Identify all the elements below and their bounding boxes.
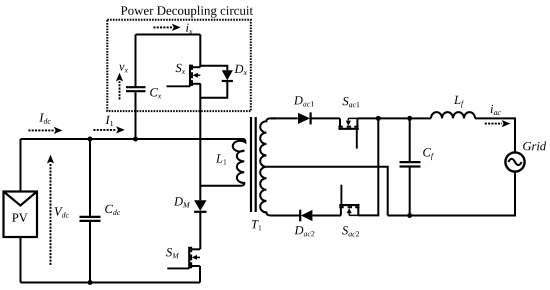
label Sac2 xyxy=(342,226,359,236)
node dot (branch join top) xyxy=(376,116,381,121)
label Sac1 xyxy=(343,97,360,107)
node dot (Cdc bottom rail) xyxy=(88,280,93,285)
label I1 xyxy=(106,116,114,126)
arrow iac xyxy=(485,120,511,127)
node dot (Cdc top rail) xyxy=(88,137,93,142)
wire Sac1 to output node xyxy=(357,117,431,119)
diode DM xyxy=(194,200,206,249)
wire Sx drain from top loop xyxy=(199,35,201,68)
dashed box Power Decoupling circuit xyxy=(107,20,251,111)
label iac xyxy=(491,105,501,115)
capacitor Cf xyxy=(400,118,421,215)
label Lf xyxy=(454,96,464,108)
label Vdc xyxy=(55,207,69,217)
diode Dac2 xyxy=(300,210,341,222)
transistor Sac2 (MOSFET horizontal) xyxy=(339,185,359,216)
capacitor Cdc xyxy=(80,139,101,283)
node dot (Cf top) xyxy=(407,116,412,121)
label T1 xyxy=(252,220,262,230)
wire decoupling top loop xyxy=(136,34,201,36)
label Cx xyxy=(150,88,161,98)
label SM xyxy=(166,248,179,258)
transistor Sx (MOSFET) xyxy=(167,65,201,87)
arrow Idc xyxy=(28,127,62,134)
wire grid return xyxy=(388,172,515,216)
label Cdc xyxy=(105,205,120,215)
label Dx xyxy=(234,65,247,75)
label Grid xyxy=(523,142,546,151)
transistor Sac1 (MOSFET horizontal) xyxy=(338,118,358,148)
transistor SM (MOSFET) xyxy=(167,247,200,269)
inductor Lf xyxy=(431,112,475,118)
wire top DC rail xyxy=(21,138,242,140)
node dot (Cx branch on rail) xyxy=(133,137,138,142)
label Sx xyxy=(176,64,186,74)
PV module xyxy=(4,192,38,238)
label vx xyxy=(119,65,128,73)
diode Dac1 xyxy=(298,112,340,124)
label ix xyxy=(186,24,192,34)
label DM xyxy=(174,197,190,207)
wire bottom DC rail xyxy=(21,282,200,284)
arrow ix xyxy=(153,24,180,31)
inductor L1 (primary winding) xyxy=(200,139,245,186)
arrow Vdc xyxy=(47,155,54,265)
winding secondary of T1 xyxy=(260,118,276,215)
title Power Decoupling circuit xyxy=(121,6,253,18)
AC source Grid xyxy=(505,152,524,171)
label Idc xyxy=(39,113,50,123)
label Cf xyxy=(423,148,434,160)
diode Dx (parallel with Sx) xyxy=(200,66,233,98)
node dot (Cf bottom) xyxy=(407,213,412,218)
label L1 xyxy=(216,154,227,164)
wire left vertical (PV to rails) xyxy=(20,139,22,283)
label Dac1 xyxy=(294,96,314,106)
wire secondary top branch to Dac1 xyxy=(271,117,298,119)
transformer T1 core xyxy=(251,117,256,212)
arrow I1 xyxy=(93,126,124,133)
wire secondary bottom branch to Dac2 xyxy=(271,215,300,217)
wire branch join vertical xyxy=(358,118,378,215)
wire Sx source down through rail to DM xyxy=(199,84,201,201)
label Dac2 xyxy=(294,226,314,236)
winding center tap wire xyxy=(266,167,387,216)
capacitor Cx xyxy=(126,35,146,140)
arrow vx xyxy=(116,73,123,100)
wire Lf to grid xyxy=(475,118,515,152)
wire SM source to bottom rail xyxy=(199,266,200,283)
